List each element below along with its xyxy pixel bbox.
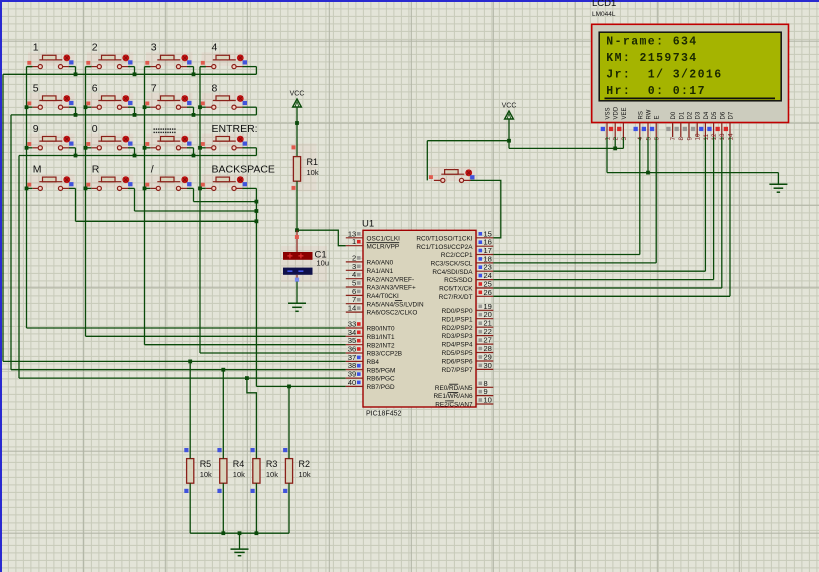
svg-text:RC5/SDO: RC5/SDO <box>444 277 472 284</box>
svg-text:1: 1 <box>33 42 39 54</box>
svg-text:RE1/WR/AN6: RE1/WR/AN6 <box>433 393 473 400</box>
svg-text:OSC1/CLKI: OSC1/CLKI <box>367 235 401 242</box>
svg-text:MCLR/VPP: MCLR/VPP <box>367 243 400 250</box>
svg-text:Hr: 0: 0:17: Hr: 0: 0:17 <box>606 85 706 98</box>
svg-text:KM: 2159734: KM: 2159734 <box>606 52 697 65</box>
svg-text:RS: RS <box>638 111 644 119</box>
svg-text:N-rame: 634: N-rame: 634 <box>606 35 697 48</box>
svg-text:D6: D6 <box>720 111 726 119</box>
svg-text:RE2/CS/AN7: RE2/CS/AN7 <box>435 402 473 409</box>
svg-text:10u: 10u <box>317 259 330 268</box>
svg-text:4: 4 <box>212 42 218 54</box>
svg-text:LCD1: LCD1 <box>592 0 616 9</box>
svg-text:9: 9 <box>686 137 693 141</box>
svg-text:D0: D0 <box>671 111 677 119</box>
svg-text:VEE: VEE <box>622 107 628 119</box>
svg-text:3: 3 <box>151 42 157 54</box>
svg-text:R2: R2 <box>299 459 311 469</box>
svg-text:14: 14 <box>348 304 356 313</box>
svg-text:VDD: VDD <box>614 106 620 119</box>
svg-text:RD6/PSP6: RD6/PSP6 <box>442 359 473 366</box>
svg-text:RC1/T1OSI/CCP2A: RC1/T1OSI/CCP2A <box>416 244 473 251</box>
svg-text:RA6/OSC2/CLKO: RA6/OSC2/CLKO <box>367 310 418 317</box>
svg-text:D2: D2 <box>688 111 694 119</box>
svg-text:R5: R5 <box>200 459 212 469</box>
svg-text:RC4/SDI/SDA: RC4/SDI/SDA <box>432 269 473 276</box>
svg-text:RA2/AN2/VREF-: RA2/AN2/VREF- <box>367 276 415 283</box>
svg-text:D3: D3 <box>696 111 702 119</box>
svg-text:D1: D1 <box>679 111 685 119</box>
svg-text:RC6/TX/CK: RC6/TX/CK <box>439 286 473 293</box>
svg-text:RC7/RX/DT: RC7/RX/DT <box>439 294 473 301</box>
svg-text:10k: 10k <box>299 470 311 479</box>
svg-text:10: 10 <box>695 133 702 141</box>
svg-text:U1: U1 <box>362 219 374 230</box>
svg-text:RA4/T0CKI: RA4/T0CKI <box>367 293 400 300</box>
svg-text:RD0/PSP0: RD0/PSP0 <box>442 308 473 315</box>
svg-text:RD5/PSP5: RD5/PSP5 <box>442 350 473 357</box>
svg-text:RA5/AN4/SS/LVDIN: RA5/AN4/SS/LVDIN <box>367 301 424 308</box>
svg-text:RB3/CCP2B: RB3/CCP2B <box>367 351 403 358</box>
svg-text:ENTRER:: ENTRER: <box>212 123 258 135</box>
svg-text:12: 12 <box>711 133 718 141</box>
svg-text:RD1/PSP1: RD1/PSP1 <box>442 316 473 323</box>
svg-text:10k: 10k <box>233 470 245 479</box>
svg-text:RB2/INT2: RB2/INT2 <box>367 342 396 349</box>
svg-text:7: 7 <box>670 137 677 141</box>
svg-text:PIC18F452: PIC18F452 <box>366 411 402 418</box>
svg-text:/: / <box>151 164 154 176</box>
svg-text:RB7/PGD: RB7/PGD <box>367 384 395 391</box>
svg-text:14: 14 <box>727 133 734 141</box>
svg-text:13: 13 <box>719 133 726 141</box>
svg-text:7: 7 <box>151 82 157 94</box>
svg-text:0: 0 <box>92 123 98 135</box>
svg-text:9: 9 <box>33 123 39 135</box>
svg-text:10: 10 <box>484 396 492 405</box>
svg-text:RA0/AN0: RA0/AN0 <box>367 260 394 267</box>
svg-text:VSS: VSS <box>606 107 612 119</box>
svg-text:R4: R4 <box>233 459 245 469</box>
svg-text:VCC: VCC <box>502 103 517 110</box>
svg-text:4: 4 <box>637 137 644 141</box>
svg-text:11: 11 <box>703 133 710 140</box>
svg-text:RB5/PGM: RB5/PGM <box>367 367 396 374</box>
svg-text:D5: D5 <box>712 111 718 119</box>
svg-text:1: 1 <box>604 137 611 141</box>
svg-text:RC2/CCP1: RC2/CCP1 <box>441 252 473 259</box>
svg-text:30: 30 <box>484 361 492 370</box>
svg-text:RA1/AN1: RA1/AN1 <box>367 268 394 275</box>
svg-text:D4: D4 <box>704 111 710 119</box>
svg-text:1: 1 <box>352 237 356 246</box>
svg-text:BACKSPACE: BACKSPACE <box>212 164 275 176</box>
svg-text:8: 8 <box>212 82 218 94</box>
svg-text:R1: R1 <box>307 157 319 167</box>
svg-text:2: 2 <box>613 137 620 141</box>
svg-text:R3: R3 <box>266 459 278 469</box>
svg-text:RB1/INT1: RB1/INT1 <box>367 334 396 341</box>
svg-text:8: 8 <box>678 137 685 141</box>
svg-text:RW: RW <box>647 109 653 119</box>
svg-text:RD4/PSP4: RD4/PSP4 <box>442 342 473 349</box>
svg-text:D7: D7 <box>729 111 735 119</box>
svg-text:10k: 10k <box>307 168 319 177</box>
svg-text:6: 6 <box>92 82 98 94</box>
svg-text:RC3/SCK/SCL: RC3/SCK/SCL <box>431 261 473 268</box>
svg-text:RC0/T1OSO/T1CKI: RC0/T1OSO/T1CKI <box>416 235 472 242</box>
svg-text:RB6/PGC: RB6/PGC <box>367 376 395 383</box>
svg-text:R: R <box>92 164 100 176</box>
svg-text:M: M <box>33 164 42 176</box>
svg-text:5: 5 <box>645 137 652 141</box>
svg-text:2: 2 <box>92 42 98 54</box>
svg-text:RA3/AN3/VREF+: RA3/AN3/VREF+ <box>367 285 416 292</box>
svg-text:6: 6 <box>654 137 661 141</box>
svg-text:RD2/PSP2: RD2/PSP2 <box>442 325 473 332</box>
svg-text:RB4: RB4 <box>367 359 380 366</box>
svg-text:VCC: VCC <box>290 91 305 98</box>
svg-text:10k: 10k <box>266 470 278 479</box>
svg-text:3: 3 <box>621 137 628 141</box>
svg-text:LM044L: LM044L <box>592 11 616 18</box>
svg-text:RD3/PSP3: RD3/PSP3 <box>442 333 473 340</box>
svg-text:Jr: 1/ 3/2016: Jr: 1/ 3/2016 <box>606 69 722 82</box>
svg-text:RD7/PSP7: RD7/PSP7 <box>442 367 473 374</box>
svg-text:26: 26 <box>484 288 492 297</box>
svg-text:RB0/INT0: RB0/INT0 <box>367 326 396 333</box>
svg-text:10k: 10k <box>200 470 212 479</box>
svg-text:40: 40 <box>348 378 356 387</box>
svg-text:5: 5 <box>33 82 39 94</box>
svg-text:E: E <box>655 115 661 119</box>
svg-text:RE0/RD/AN5: RE0/RD/AN5 <box>435 385 473 392</box>
